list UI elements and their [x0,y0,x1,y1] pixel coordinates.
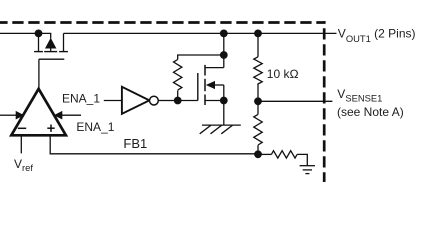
svg-text:ENA_1: ENA_1 [62,92,100,106]
svg-text:10 kΩ: 10 kΩ [267,67,299,81]
svg-text:(see Note A): (see Note A) [337,105,404,119]
svg-text:FB1: FB1 [123,136,147,151]
svg-text:VSENSE1: VSENSE1 [337,87,382,103]
svg-text:ENA_1: ENA_1 [76,120,114,134]
svg-text:Vref: Vref [14,157,33,173]
svg-text:VOUT1 (2 Pins): VOUT1 (2 Pins) [338,27,416,45]
